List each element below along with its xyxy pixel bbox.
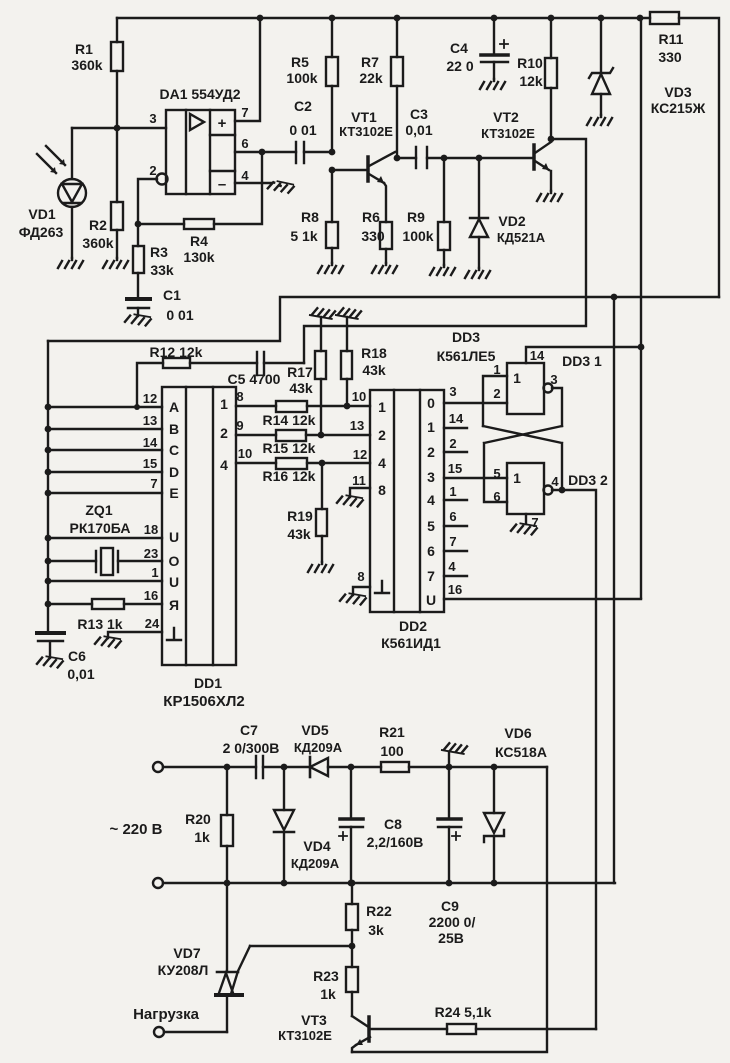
ground (C6, tilted) <box>37 655 63 668</box>
resistor R6 (emitter VT1) <box>361 183 392 263</box>
svg-text:К561ЛЕ5: К561ЛЕ5 <box>437 348 496 364</box>
svg-text:24: 24 <box>145 616 160 631</box>
svg-text:VD5: VD5 <box>301 722 328 738</box>
svg-text:8: 8 <box>357 569 364 584</box>
ground (R2) <box>103 258 128 268</box>
capacitor C4 <box>446 18 508 79</box>
svg-text:C3: C3 <box>410 106 428 122</box>
wire DD3.1 pin14 supply <box>526 347 641 363</box>
svg-text:C9: C9 <box>441 898 459 914</box>
wire load line <box>164 1031 227 1033</box>
svg-text:R14 12k: R14 12k <box>263 412 316 428</box>
svg-text:VT1: VT1 <box>351 109 377 125</box>
svg-text:R13 1k: R13 1k <box>77 616 122 632</box>
svg-text:43k: 43k <box>362 362 386 378</box>
svg-text:R7: R7 <box>361 54 379 70</box>
capacitor C2 <box>289 98 332 163</box>
svg-text:U: U <box>169 574 179 590</box>
svg-text:2 0/300В: 2 0/300В <box>223 740 280 756</box>
svg-text:43k: 43k <box>287 526 311 542</box>
svg-text:R21: R21 <box>379 724 405 740</box>
svg-text:13: 13 <box>350 418 364 433</box>
capacitor C8 <box>339 767 423 883</box>
svg-text:R17: R17 <box>287 364 313 380</box>
svg-text:100k: 100k <box>402 228 433 244</box>
svg-text:+: + <box>218 115 227 132</box>
ground (above C9, tilted stub) <box>442 742 467 767</box>
junction pin7 rail <box>257 15 264 22</box>
wire DD1 pin24 to ground <box>108 632 162 638</box>
junction R5 rail <box>329 15 336 22</box>
resistor R3 <box>133 224 174 298</box>
svg-text:R19: R19 <box>287 508 313 524</box>
junction R3/R4/pin2 <box>135 221 142 228</box>
svg-text:VD2: VD2 <box>498 213 525 229</box>
resistor R11 <box>650 12 684 65</box>
svg-text:100: 100 <box>380 743 404 759</box>
wire DD2 out5 stub pin6 <box>444 525 467 527</box>
svg-text:Нагрузка: Нагрузка <box>133 1006 199 1023</box>
svg-text:R6: R6 <box>362 209 380 225</box>
svg-text:ZQ1: ZQ1 <box>85 502 112 518</box>
svg-text:22 0: 22 0 <box>446 58 473 74</box>
resistor R21 100 <box>379 724 409 772</box>
svg-text:12k: 12k <box>519 73 543 89</box>
svg-text:130k: 130k <box>183 249 214 265</box>
ground (R18 top, inverted tilted) <box>336 307 361 319</box>
junction R12/pin12 <box>134 404 140 410</box>
terminal Нагрузка <box>154 1027 164 1037</box>
resistor R12 <box>137 344 257 407</box>
svg-text:360k: 360k <box>71 57 102 73</box>
wire DD2 out3 to DD3.2 pin5 <box>444 477 507 479</box>
wire DD1 pin15 line <box>48 471 162 473</box>
svg-text:КС518А: КС518А <box>495 744 547 760</box>
svg-text:4: 4 <box>551 474 559 489</box>
ground (DD3.2 pin7, tilted) <box>511 522 537 535</box>
svg-text:4: 4 <box>448 559 456 574</box>
svg-text:1: 1 <box>449 484 456 499</box>
ground (DA1 pin4, tilted) <box>268 180 294 194</box>
svg-text:360k: 360k <box>82 235 113 251</box>
svg-text:8: 8 <box>236 389 243 404</box>
wire DD2 pin11 to ground <box>350 488 370 497</box>
svg-text:R24 5,1k: R24 5,1k <box>435 1004 492 1020</box>
svg-text:R1: R1 <box>75 41 93 57</box>
svg-text:КД209А: КД209А <box>294 740 343 755</box>
svg-text:1: 1 <box>427 419 435 435</box>
junction VD4 top <box>281 764 288 771</box>
junction C9 bottom <box>446 880 453 887</box>
ground (R17 top, inverted tilted) <box>310 307 335 319</box>
wire AC neutral drop x547 <box>352 767 547 1052</box>
svg-text:3: 3 <box>449 384 456 399</box>
svg-text:DD3: DD3 <box>452 329 480 345</box>
resistor R22 3k <box>346 883 392 946</box>
resistor R13 1k <box>48 599 162 632</box>
junction C3/R9 <box>441 155 448 162</box>
svg-text:1: 1 <box>493 362 500 377</box>
junction node R1/R2/pin3 <box>114 125 121 132</box>
svg-text:1: 1 <box>378 399 386 415</box>
svg-text:КД521А: КД521А <box>497 230 546 245</box>
svg-text:4: 4 <box>378 455 386 471</box>
svg-text:R15 12k: R15 12k <box>263 440 316 456</box>
capacitor C6 <box>37 633 95 682</box>
wire +V branch down (x641) <box>640 18 642 598</box>
thyristor VD7 КУ208Л <box>158 883 250 1032</box>
capacitor C3 <box>397 106 533 168</box>
svg-text:7: 7 <box>427 568 435 584</box>
svg-text:R22: R22 <box>366 903 392 919</box>
svg-text:1: 1 <box>220 396 228 412</box>
wire DA1 pin7 to rail <box>235 18 260 121</box>
svg-text:VD7: VD7 <box>173 945 200 961</box>
svg-text:2: 2 <box>149 163 156 178</box>
junction C2/R5/VT1 base node <box>329 149 336 156</box>
wire DD1 pin13 line <box>48 428 162 430</box>
transistor VT2 КТ3102Е <box>481 109 551 191</box>
svg-text:R23: R23 <box>313 968 339 984</box>
junction R7 rail <box>394 15 401 22</box>
svg-text:2: 2 <box>449 436 456 451</box>
junction VD6 top <box>491 764 498 771</box>
svg-text:15: 15 <box>143 456 157 471</box>
svg-text:2: 2 <box>493 386 500 401</box>
IC DD1 КР1506ХЛ2 <box>162 387 245 710</box>
svg-text:VD1: VD1 <box>28 206 55 222</box>
ground (VD2) <box>465 268 490 278</box>
photodiode VD1 ФД263 <box>19 128 86 258</box>
svg-text:0: 0 <box>427 395 435 411</box>
svg-text:3: 3 <box>149 111 156 126</box>
resistor R19 43k <box>287 463 327 562</box>
svg-text:DA1 554УД2: DA1 554УД2 <box>159 86 240 102</box>
svg-text:КД209А: КД209А <box>291 856 340 871</box>
ground (R8) <box>318 263 343 273</box>
wire VT2 collector to DD1 bus <box>304 139 586 363</box>
ground (DD2 pin8, tilted) <box>340 592 366 605</box>
wire DD3.1 pin1 jog <box>483 376 507 426</box>
junction VT2 collector <box>548 136 555 143</box>
svg-text:100k: 100k <box>286 70 317 86</box>
svg-text:11: 11 <box>352 473 366 488</box>
svg-text:1k: 1k <box>320 986 336 1002</box>
zener VD3 КС215Ж <box>589 18 706 116</box>
wire DD1 pin18 line <box>48 537 162 539</box>
svg-text:КТ3102Е: КТ3102Е <box>339 124 393 139</box>
capacitor C5 4700 <box>228 352 304 387</box>
svg-text:1: 1 <box>151 565 158 580</box>
transistor VT3 КТ3102Е <box>278 1012 447 1052</box>
svg-text:DD1: DD1 <box>194 675 222 691</box>
svg-text:D: D <box>169 464 179 480</box>
svg-text:9: 9 <box>236 418 243 433</box>
svg-text:0 01: 0 01 <box>166 307 193 323</box>
capacitor C9 <box>429 767 476 946</box>
svg-text:12: 12 <box>353 447 367 462</box>
svg-text:R16 12k: R16 12k <box>263 468 316 484</box>
svg-text:5: 5 <box>427 518 435 534</box>
junction base node <box>329 167 336 174</box>
svg-text:DD2: DD2 <box>399 618 427 634</box>
wire AC top line <box>163 766 547 768</box>
svg-text:14: 14 <box>143 435 158 450</box>
ground (VD1) <box>58 258 83 268</box>
junction R19/R16 line <box>319 460 326 467</box>
wire DD2 out1 stub pin14 <box>444 427 467 429</box>
svg-text:C2: C2 <box>294 98 312 114</box>
svg-text:6: 6 <box>493 489 500 504</box>
junction DD3.2 out / feedback <box>559 487 566 494</box>
resistor R8 <box>290 170 338 263</box>
svg-text:R20: R20 <box>185 811 211 827</box>
svg-text:4: 4 <box>241 168 249 183</box>
svg-text:R5: R5 <box>291 54 309 70</box>
wire DD2 out7 stub pin4 <box>444 575 467 577</box>
svg-text:0,01: 0,01 <box>67 666 94 682</box>
svg-text:7: 7 <box>449 534 456 549</box>
svg-text:E: E <box>169 485 178 501</box>
resistor R14 12k <box>236 401 370 428</box>
zener VD6 КС518А <box>484 725 547 883</box>
pin 2 inverting input circle <box>138 174 168 225</box>
resistor R16 12k <box>236 458 370 484</box>
svg-text:VT3: VT3 <box>301 1012 327 1028</box>
wire DD1 pin1 line <box>48 580 162 582</box>
svg-text:ФД263: ФД263 <box>19 224 64 240</box>
junction pin6/R4 <box>259 149 266 156</box>
svg-text:25В: 25В <box>438 930 464 946</box>
wire DA1 pin3 input node <box>72 127 166 129</box>
svg-text:КС215Ж: КС215Ж <box>651 100 706 116</box>
svg-text:А: А <box>169 399 179 415</box>
svg-text:R18: R18 <box>361 345 387 361</box>
svg-text:4: 4 <box>220 457 228 473</box>
wire cross-couple out3 to in6 <box>484 426 562 502</box>
svg-text:C1: C1 <box>163 287 181 303</box>
wire supply drop x614 <box>613 297 615 883</box>
svg-text:КТ3102Е: КТ3102Е <box>481 126 535 141</box>
terminal ~220V top <box>153 762 163 772</box>
svg-text:0,01: 0,01 <box>405 122 432 138</box>
gate DD3.1 <box>507 353 602 414</box>
svg-text:13: 13 <box>143 413 157 428</box>
ground (C4) <box>480 79 505 89</box>
wire top +V rail <box>117 18 719 297</box>
junction R7/C3/VT1 collector <box>394 155 401 162</box>
resistor R15 12k <box>236 430 370 456</box>
svg-text:РК170БА: РК170БА <box>70 520 131 536</box>
junction mid rail x614 <box>611 294 618 301</box>
svg-text:43k: 43k <box>289 380 313 396</box>
wire DD3.1 output <box>552 388 562 426</box>
svg-text:VD6: VD6 <box>504 725 531 741</box>
junction C8 top <box>348 764 355 771</box>
resistor R23 1k <box>313 946 358 1016</box>
svg-text:VD4: VD4 <box>303 838 330 854</box>
svg-text:15: 15 <box>448 461 462 476</box>
svg-text:2: 2 <box>427 444 435 460</box>
wire DD2 out2 stub pin2 <box>444 451 467 453</box>
svg-text:R9: R9 <box>407 209 425 225</box>
junction R18/R14 line <box>344 403 351 410</box>
svg-text:16: 16 <box>448 582 462 597</box>
svg-text:8: 8 <box>378 482 386 498</box>
svg-text:К561ИД1: К561ИД1 <box>381 635 441 651</box>
wire DD2 pin8 to ground <box>353 587 370 595</box>
svg-text:14: 14 <box>530 348 545 363</box>
svg-text:5: 5 <box>493 466 500 481</box>
resistor R2 <box>82 128 123 258</box>
wire DD2 out4 stub pin1 <box>444 499 467 501</box>
junction R22 top <box>349 880 356 887</box>
capacitor C7 <box>223 722 280 778</box>
junction R20 top <box>224 764 231 771</box>
ground (pin24, tilted) <box>95 635 121 648</box>
resistor R9 <box>402 158 450 265</box>
svg-text:10: 10 <box>238 446 252 461</box>
junction VD6 bottom <box>491 880 498 887</box>
junction C9 top <box>446 764 453 771</box>
junction R17/R15 line <box>318 432 325 439</box>
capacitor C1 <box>127 287 194 323</box>
svg-text:2: 2 <box>378 427 386 443</box>
wire supply mid rail y297 <box>48 297 719 341</box>
svg-text:КР1506ХЛ2: КР1506ХЛ2 <box>163 693 244 710</box>
svg-text:КТ3102Е: КТ3102Е <box>278 1028 332 1043</box>
svg-text:R12 12k: R12 12k <box>150 344 203 360</box>
terminal ~220V bottom <box>153 878 163 888</box>
resistor R4 feedback <box>138 152 262 265</box>
wire DD3.2 output <box>552 490 596 1029</box>
diode VD4 КД209А <box>274 767 340 883</box>
svg-text:1: 1 <box>513 470 521 486</box>
svg-text:U: U <box>169 529 179 545</box>
svg-text:C4: C4 <box>450 40 468 56</box>
svg-text:330: 330 <box>658 49 682 65</box>
wire VD7 gate line <box>250 945 352 947</box>
ground (DD2 pin11, tilted) <box>337 494 363 507</box>
svg-text:R8: R8 <box>301 209 319 225</box>
svg-text:2200 0/: 2200 0/ <box>429 914 476 930</box>
junction VD3 rail <box>598 15 605 22</box>
junction VD4 bottom <box>281 880 288 887</box>
svg-text:1: 1 <box>513 370 521 386</box>
svg-text:R4: R4 <box>190 233 208 249</box>
ground (VD3) <box>587 115 612 125</box>
resistor R20 1k <box>185 767 233 883</box>
svg-text:330: 330 <box>361 228 385 244</box>
svg-text:6: 6 <box>449 509 456 524</box>
svg-text:R3: R3 <box>150 244 168 260</box>
wire cross-couple out4 to in1 <box>483 426 562 490</box>
junction R20 bottom <box>224 880 231 887</box>
svg-text:Я: Я <box>169 597 179 613</box>
ground (R6) <box>372 263 397 273</box>
wire DD2 out6 stub pin7 <box>444 550 467 552</box>
ground (R19) <box>308 562 333 572</box>
svg-text:C8: C8 <box>384 816 402 832</box>
svg-text:6: 6 <box>427 543 435 559</box>
wire AC bottom line <box>163 882 615 884</box>
svg-text:VD3: VD3 <box>664 84 691 100</box>
svg-text:6: 6 <box>241 136 248 151</box>
svg-text:16: 16 <box>144 588 158 603</box>
wire DD1 pin7 line <box>48 492 162 494</box>
ground (C1, tilted) <box>125 313 151 326</box>
resistor R18 43k <box>341 317 387 406</box>
svg-text:0 01: 0 01 <box>289 122 316 138</box>
svg-text:КУ208Л: КУ208Л <box>158 962 209 978</box>
svg-text:VT2: VT2 <box>493 109 519 125</box>
crystal ZQ1 РК170БА <box>48 502 162 575</box>
junction pin14 line x641 <box>638 344 645 351</box>
svg-text:С5 4700: С5 4700 <box>228 371 281 387</box>
resistor R17 43k <box>287 317 326 435</box>
svg-text:C6: C6 <box>68 648 86 664</box>
svg-text:R2: R2 <box>89 217 107 233</box>
svg-text:DD3 1: DD3 1 <box>562 353 602 369</box>
svg-text:23: 23 <box>144 546 158 561</box>
svg-text:18: 18 <box>144 522 158 537</box>
wire DD2 out0 to DD3.1 pin2 <box>444 402 507 404</box>
wire DA1 pin6 out <box>235 151 296 153</box>
svg-text:3: 3 <box>550 372 557 387</box>
gate DD3.2 <box>507 463 608 514</box>
svg-text:33k: 33k <box>150 262 174 278</box>
svg-text:2,2/160В: 2,2/160В <box>367 834 424 850</box>
svg-text:2: 2 <box>220 425 228 441</box>
resistor R5 <box>286 18 338 152</box>
wire DD2 pin16 supply line <box>444 598 641 600</box>
svg-text:22k: 22k <box>359 70 383 86</box>
svg-text:12: 12 <box>143 391 157 406</box>
junction C3/VD2 <box>476 155 483 162</box>
ground (R9) <box>430 265 455 275</box>
svg-text:7: 7 <box>241 105 248 120</box>
junction R10 rail <box>548 15 555 22</box>
svg-text:B: B <box>169 421 179 437</box>
svg-text:14: 14 <box>449 411 464 426</box>
IC DD2 К561ИД1 <box>370 390 444 651</box>
svg-text:7: 7 <box>150 476 157 491</box>
junction R11 rail <box>637 15 644 22</box>
wire DD3.2 pin7 ground <box>525 514 527 524</box>
diode VD5 КД209А <box>294 722 343 777</box>
wire input bus (left) <box>47 341 49 633</box>
resistor R24 5,1k <box>435 1004 596 1034</box>
svg-text:1k: 1k <box>194 829 210 845</box>
svg-text:О: О <box>169 553 180 569</box>
svg-text:3k: 3k <box>368 922 384 938</box>
svg-text:DD3 2: DD3 2 <box>568 472 608 488</box>
diode VD2 КД521А <box>470 158 546 268</box>
svg-text:3: 3 <box>427 469 435 485</box>
svg-text:5 1k: 5 1k <box>290 228 317 244</box>
junction C8 bottom <box>348 880 355 887</box>
wire DA1 pin4 <box>235 182 272 184</box>
op-amp DA1 554УД2 <box>159 86 240 194</box>
svg-text:R10: R10 <box>517 55 543 71</box>
svg-text:10: 10 <box>352 389 366 404</box>
resistor R7 <box>359 18 403 158</box>
svg-text:C7: C7 <box>240 722 258 738</box>
junction R22/R23/gate <box>349 943 356 950</box>
svg-text:–: – <box>218 176 226 193</box>
resistor R10 <box>517 18 557 139</box>
ground (VT2 emitter) <box>537 191 562 201</box>
